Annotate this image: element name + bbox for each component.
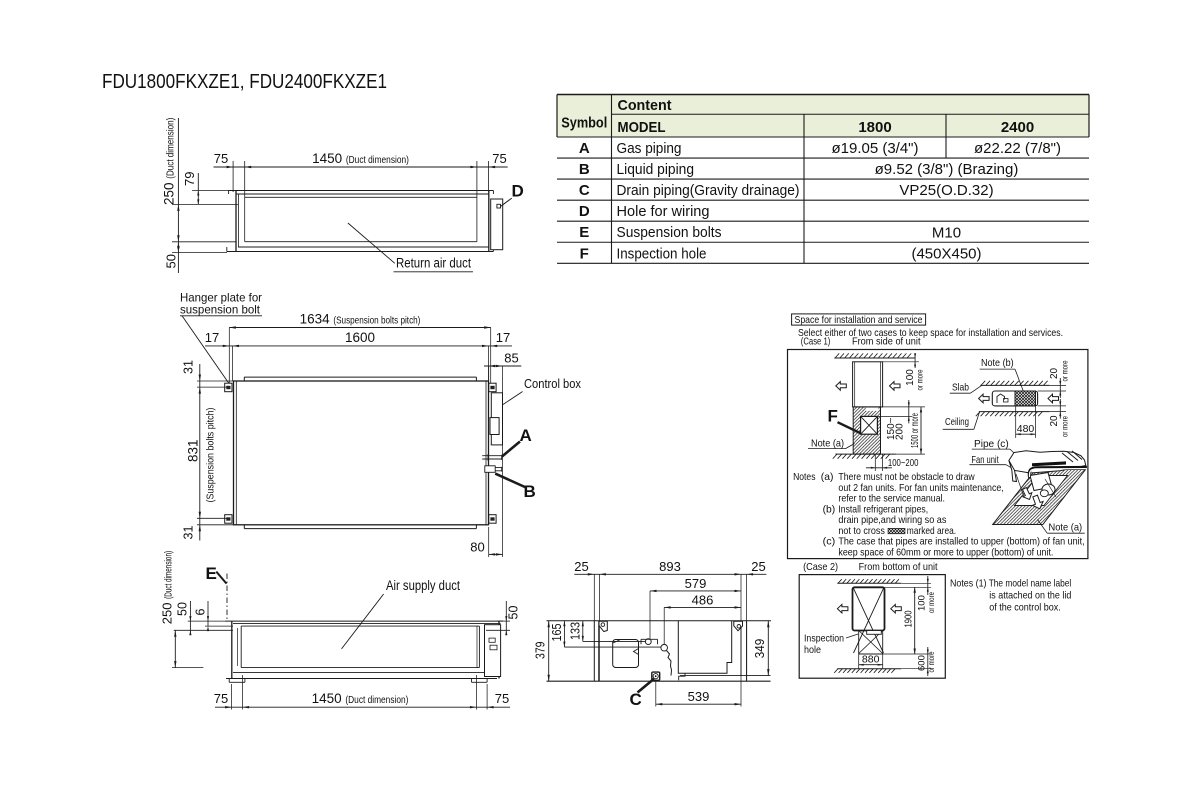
svg-text:Slab: Slab	[952, 381, 969, 393]
view4 dim 486 extension	[663, 607, 665, 644]
case1 3d white opening	[1015, 476, 1068, 506]
view1 unit right inner	[476, 197, 478, 241]
view3 tick right flange	[497, 620, 510, 622]
view3 tick flange top left	[188, 620, 227, 622]
case1 slab hatch right diagram	[980, 384, 1049, 386]
view3 unit left inner	[240, 626, 242, 668]
view4 dim 165	[563, 621, 565, 647]
view4 pipe path	[667, 651, 672, 676]
svg-text:C: C	[630, 690, 642, 709]
view3 bottom extension lines	[231, 684, 233, 710]
svg-text:2400: 2400	[1001, 119, 1034, 136]
view1 unit inner top line	[245, 196, 477, 198]
view3 unit right inner	[476, 626, 478, 668]
svg-text:The model name label: The model name label	[989, 579, 1072, 590]
view3 unit lower line	[233, 672, 501, 674]
case1 outer box	[788, 350, 1088, 559]
view2 dim 85	[484, 365, 521, 367]
view1 return air duct leader	[348, 223, 395, 263]
view3 E leader	[216, 572, 226, 584]
view2 top plate	[244, 376, 476, 378]
case1 3d fan unit body	[1009, 451, 1086, 473]
view2 control box leader	[503, 392, 523, 405]
svg-text:Space for installation and ser: Space for installation and service	[795, 314, 923, 326]
view2 suspension bolt top-right	[489, 383, 496, 392]
svg-text:MODEL: MODEL	[618, 119, 666, 136]
case1 slab hatching	[834, 357, 915, 359]
svg-text:1600: 1600	[345, 330, 375, 345]
view2 A leader	[502, 442, 520, 457]
svg-text:Inspection hole: Inspection hole	[617, 245, 707, 262]
svg-text:480: 480	[1017, 423, 1035, 435]
case1 3d unit left face	[1009, 461, 1017, 482]
view2 dim 1634 extension lines	[228, 328, 230, 385]
view3 dim 50 left line	[189, 601, 191, 634]
case2 airflow arrow right	[891, 604, 902, 613]
svg-text:keep space of 60mm or more to: keep space of 60mm or more to upper (bot…	[838, 547, 1053, 558]
view4 pipe leader line lower	[564, 646, 661, 648]
view2 dim 85 extensions	[488, 366, 490, 381]
svg-text:Suspension bolts: Suspension bolts	[617, 224, 722, 241]
view4 C leader	[638, 679, 655, 693]
svg-text:50: 50	[507, 606, 521, 620]
case1 ceiling line	[979, 411, 1050, 413]
view1 unit right edge	[488, 191, 490, 252]
case1 floor hatching	[835, 453, 896, 455]
case1 dim 1500 or more	[881, 406, 926, 408]
svg-text:A: A	[520, 426, 532, 445]
case2 dim 100 or more	[927, 576, 929, 595]
case2 dim 600 or more	[927, 647, 929, 676]
view4 top dimension 25/893/25	[574, 573, 766, 575]
view2 hanger leader	[182, 316, 229, 384]
view2 suspension bolt top-left	[225, 383, 232, 392]
view4 dim 379	[548, 621, 550, 682]
svg-text:1450 (Duct dimension): 1450 (Duct dimension)	[312, 151, 409, 166]
case2 top hatching	[837, 582, 901, 584]
svg-text:17: 17	[205, 330, 219, 345]
svg-text:80: 80	[470, 540, 484, 555]
svg-text:or more: or more	[926, 651, 936, 672]
view2 left dim ticks	[197, 380, 234, 382]
svg-text:suspension bolt: suspension bolt	[180, 303, 261, 317]
view4 drain pan step	[679, 673, 685, 680]
view1 tick duct top	[172, 203, 238, 205]
view1 left reference line	[177, 118, 179, 273]
svg-text:or more: or more	[1060, 360, 1070, 381]
svg-text:Control box: Control box	[524, 376, 581, 391]
svg-text:B: B	[524, 482, 536, 501]
view2 unit body rectangle	[234, 381, 489, 525]
case1 ceiling arrows	[979, 394, 990, 403]
svg-text:(Suspension bolts pitch): (Suspension bolts pitch)	[205, 408, 217, 503]
view3 unit left edge	[231, 621, 233, 678]
case1 3d front panel	[1030, 473, 1052, 491]
view1 extension lines top	[232, 161, 234, 192]
view4 right corner bracket	[734, 621, 743, 631]
case1 crosshatch marked block	[1015, 391, 1036, 406]
view2 control box	[491, 393, 502, 445]
svg-text:Content: Content	[618, 97, 672, 114]
svg-text:or more: or more	[915, 369, 925, 390]
view4 pipe leader line upper	[583, 640, 646, 642]
case2 bottom hatching	[837, 668, 901, 670]
view2 suspension bolt bottom-right	[489, 515, 496, 524]
table column divider symbol/content	[611, 95, 613, 264]
view3 tick 6 line	[205, 625, 233, 627]
case1 airflow arrow left	[836, 382, 847, 391]
case2 unit rect	[853, 587, 885, 630]
view2 pipe A stub	[482, 455, 502, 457]
svg-text:1900: 1900	[904, 610, 915, 627]
view4 dim 579	[650, 590, 741, 592]
view4 dim 579 extension	[649, 591, 651, 639]
svg-text:ø19.05 (3/4"): ø19.05 (3/4")	[831, 140, 918, 157]
view3 suspension bolt centerline dashed	[226, 574, 228, 621]
svg-text:1450 (Duct dimension): 1450 (Duct dimension)	[312, 691, 409, 706]
view3 right foot	[472, 681, 488, 683]
svg-text:50: 50	[164, 254, 179, 268]
view4 pipe bracket	[641, 638, 658, 640]
view4 bottom line	[547, 680, 771, 682]
view3 unit right edge	[498, 621, 500, 678]
svg-text:379: 379	[533, 642, 548, 660]
case2 right dim ticks	[885, 586, 932, 588]
svg-text:Air supply duct: Air supply duct	[386, 578, 460, 593]
svg-text:Return air duct: Return air duct	[396, 256, 471, 271]
view4 dim 133	[582, 621, 584, 642]
svg-text:75: 75	[214, 691, 228, 706]
svg-text:31: 31	[182, 360, 196, 374]
svg-text:is attached on the lid: is attached on the lid	[989, 591, 1071, 602]
view1 flange end steps	[228, 191, 230, 195]
case1 F leader	[838, 422, 861, 433]
svg-text:Pipe (c): Pipe (c)	[974, 438, 1009, 450]
view1 dim 250 arrows	[177, 204, 179, 211]
svg-text:486: 486	[692, 593, 714, 608]
case1 marked area swatch	[888, 528, 905, 534]
case2 inspection region	[858, 631, 860, 655]
svg-text:There must not be obstacle to: There must not be obstacle to draw	[838, 472, 975, 483]
view3 dim 250 line	[174, 630, 176, 667]
table row lines	[557, 136, 1089, 138]
table column divider model/values	[803, 114, 805, 263]
view1 tick bottom-most	[172, 252, 227, 254]
svg-text:539: 539	[688, 689, 710, 704]
svg-text:17: 17	[496, 330, 510, 345]
view2 bottom plate	[244, 528, 476, 530]
service panel title box	[792, 314, 926, 325]
svg-text:20: 20	[1049, 367, 1060, 379]
view3 tick duct bottom	[172, 667, 203, 669]
svg-text:893: 893	[659, 559, 681, 574]
table header background	[557, 95, 1089, 138]
case2 control box mark	[867, 631, 882, 635]
case1 hatched service block	[853, 407, 880, 454]
view4 dim 539 extensions	[655, 680, 657, 706]
svg-text:50: 50	[176, 602, 190, 616]
svg-text:ø22.22 (7/8"): ø22.22 (7/8")	[974, 140, 1061, 157]
view3 unit body top	[241, 625, 479, 627]
svg-text:Select either of two cases to: Select either of two cases to keep space…	[798, 327, 1063, 339]
svg-text:75: 75	[492, 151, 506, 166]
svg-text:1634 (Suspension bolts pitch): 1634 (Suspension bolts pitch)	[300, 312, 421, 327]
svg-text:Install refrigerant pipes,: Install refrigerant pipes,	[838, 504, 928, 515]
svg-text:VP25(O.D.32): VP25(O.D.32)	[899, 182, 993, 199]
svg-text:Fan unit: Fan unit	[971, 454, 998, 466]
case1 3d hatched ceiling band	[993, 470, 1086, 525]
case1 dim 20 or more top	[1059, 378, 1061, 398]
svg-text:E: E	[206, 564, 217, 583]
view4 right section bottom	[680, 675, 771, 677]
svg-text:Note (a): Note (a)	[811, 438, 844, 450]
view3 unit flange top line	[226, 620, 504, 622]
view4 top extension lines	[593, 574, 595, 620]
svg-text:D: D	[579, 203, 590, 220]
view4 unit top line	[547, 620, 772, 622]
view3 right pipe fittings	[489, 638, 495, 642]
svg-text:or more: or more	[926, 592, 936, 613]
view4 dim 539	[656, 703, 741, 705]
view1 D leader	[501, 198, 512, 206]
svg-text:ø9.52 (3/8") (Brazing): ø9.52 (3/8") (Brazing)	[875, 161, 1019, 178]
view1 unit second line	[236, 193, 489, 195]
case1 dim 480	[1015, 406, 1017, 438]
svg-text:of the control box.: of the control box.	[989, 603, 1060, 614]
svg-text:Notes (1): Notes (1)	[950, 579, 987, 590]
view3 unit bottom-most line	[226, 678, 497, 680]
view2 left dim line	[199, 364, 201, 541]
view4 left corner bracket	[599, 621, 607, 631]
view3 unit body bottom	[241, 667, 479, 669]
svg-text:Hole for wiring: Hole for wiring	[617, 203, 710, 220]
view1 unit flange top line	[229, 190, 494, 192]
svg-text:F: F	[828, 407, 838, 426]
view3 right pipes panel	[485, 625, 501, 677]
svg-text:marked area.: marked area.	[907, 526, 956, 537]
view2 dim 80	[489, 553, 503, 555]
case1 fan unit rect	[853, 362, 883, 407]
view4 fan scroll	[613, 640, 639, 668]
view1 right foot	[492, 247, 494, 252]
view4 dim 486	[664, 606, 741, 608]
svg-text:E: E	[579, 224, 589, 241]
case1 inspection hole box F	[861, 416, 878, 434]
svg-text:C: C	[579, 182, 590, 199]
case1 duct pipes doodle	[997, 394, 1005, 403]
view3 left foot	[229, 681, 245, 683]
view1 unit left edge	[235, 191, 237, 252]
view2 unit inner side lines	[235, 381, 237, 525]
svg-text:B: B	[579, 161, 590, 178]
view2 suspension bolt bottom-left	[225, 515, 232, 524]
svg-text:1800: 1800	[858, 119, 891, 136]
table header borders	[557, 94, 1089, 96]
svg-text:(Case 2): (Case 2)	[803, 561, 838, 573]
case2 outer box	[799, 575, 945, 679]
view1 tick body bottom	[172, 241, 236, 243]
svg-text:From side of unit: From side of unit	[852, 335, 921, 347]
view1 left foot	[226, 247, 228, 252]
table column divider 1800/2400	[945, 114, 947, 158]
case1 3d unit outlet slot	[1032, 461, 1066, 466]
svg-text:Drain piping(Gravity drainage): Drain piping(Gravity drainage)	[617, 182, 800, 199]
svg-text:drain pipe,and wiring so as: drain pipe,and wiring so as	[838, 515, 946, 526]
svg-text:25: 25	[574, 559, 588, 574]
svg-text:hole: hole	[804, 644, 821, 656]
view4 right wall	[740, 621, 742, 676]
case2 dim 880	[858, 654, 860, 669]
view2 dim 80 extension	[488, 527, 490, 557]
svg-text:Note (a): Note (a)	[1049, 522, 1083, 534]
svg-text:75: 75	[214, 151, 228, 166]
svg-text:Notes: Notes	[793, 472, 815, 483]
view1 top dimension line 75/1450/75	[214, 166, 508, 168]
svg-text:Symbol: Symbol	[561, 115, 607, 132]
view4 heat exchanger section	[678, 621, 731, 674]
case1 3d fan circles	[1042, 484, 1055, 495]
svg-text:349: 349	[752, 639, 767, 659]
svg-text:out 2 fan units. For fan units: out 2 fan units. For fan units maintenan…	[838, 483, 1003, 494]
svg-text:6: 6	[194, 609, 208, 616]
view3 tick right body top	[486, 629, 510, 631]
view3 dim 6 line	[207, 601, 209, 626]
case1 dim 100 or more	[914, 353, 916, 368]
view1 unit bottom lines	[245, 241, 477, 243]
svg-text:831: 831	[186, 439, 201, 462]
view4 drain fitting	[652, 672, 660, 680]
svg-text:Liquid piping: Liquid piping	[617, 161, 695, 178]
svg-text:1500 or more: 1500 or more	[910, 413, 921, 448]
view4 pipe A circle	[645, 639, 651, 645]
svg-text:Gas piping: Gas piping	[617, 140, 682, 157]
svg-text:133: 133	[569, 622, 583, 640]
svg-text:25: 25	[751, 559, 765, 574]
view1 unit inner left	[244, 197, 246, 241]
view2 dim 1600 extension lines	[232, 346, 234, 381]
view1 dim 79 line	[197, 173, 199, 204]
view3 tick body top	[174, 629, 233, 631]
view1 D panel	[491, 199, 503, 250]
view3 bottom dimension line	[215, 706, 510, 708]
view4 left wall	[593, 621, 595, 682]
svg-text:M10: M10	[932, 224, 961, 241]
svg-text:refer to the service manual.: refer to the service manual.	[838, 494, 945, 505]
svg-text:Note (b): Note (b)	[981, 357, 1014, 369]
view1 tick flange top	[192, 190, 230, 192]
view2 hanger label underline	[180, 315, 262, 317]
svg-text:(a): (a)	[821, 472, 834, 483]
case1 3d arrow 2	[1033, 495, 1044, 509]
case1 duct unit bar	[992, 391, 1037, 406]
svg-text:(c): (c)	[823, 537, 836, 548]
view2 right edge line to 80 dim	[502, 366, 504, 557]
svg-text:D: D	[512, 182, 524, 201]
view2 B leader	[495, 474, 526, 488]
case1 3d guide lines	[1016, 474, 1024, 497]
case1 airflow arrow right	[890, 382, 901, 391]
svg-text:FDU1800FKXZE1, FDU2400FKXZE1: FDU1800FKXZE1, FDU2400FKXZE1	[102, 70, 387, 93]
svg-text:85: 85	[504, 351, 518, 366]
view3 air supply duct leader	[342, 594, 384, 649]
view1 return air duct underline	[394, 271, 474, 273]
view4 pipe B circle	[661, 644, 668, 651]
svg-text:or more: or more	[1060, 416, 1070, 437]
svg-text:(Case 1): (Case 1)	[801, 335, 831, 347]
svg-text:75: 75	[495, 691, 509, 706]
svg-text:Ceiling: Ceiling	[945, 416, 969, 428]
svg-text:880: 880	[862, 654, 880, 666]
case1 3d arrow 1	[1022, 488, 1031, 500]
case1 right dim ticks	[1050, 384, 1066, 386]
case2 cross lines	[854, 588, 884, 653]
view1 D panel hole	[497, 204, 501, 208]
svg-text:100~200: 100~200	[888, 457, 919, 469]
svg-text:The case that pipes are instal: The case that pipes are installed to upp…	[838, 537, 1084, 548]
svg-text:F: F	[580, 245, 589, 262]
svg-text:(450X450): (450X450)	[911, 245, 981, 262]
svg-text:A: A	[579, 140, 590, 157]
svg-text:579: 579	[685, 576, 707, 591]
svg-text:20: 20	[1049, 415, 1060, 427]
case1 dim 20 or more bottom	[1059, 399, 1061, 419]
svg-text:From bottom of unit: From bottom of unit	[859, 561, 938, 573]
case2 airflow arrow left	[837, 604, 848, 613]
svg-text:Inspection: Inspection	[804, 633, 844, 645]
view3 unit second line	[233, 622, 501, 624]
svg-text:not to cross: not to cross	[838, 526, 885, 537]
case2 dim 1900	[914, 587, 916, 654]
view2 pipe B stub	[485, 466, 495, 473]
view2 dim 1634	[229, 327, 490, 329]
view4 dim 349	[767, 621, 769, 676]
svg-text:165: 165	[550, 623, 564, 641]
case1 block top notch	[866, 408, 879, 411]
svg-text:79: 79	[182, 172, 197, 186]
view2 dim 1600	[205, 345, 512, 347]
view3 dim 50 right line	[505, 601, 507, 634]
view2 control box terminal	[490, 418, 499, 435]
svg-text:200: 200	[895, 423, 906, 440]
svg-text:31: 31	[182, 526, 196, 540]
case1 dim 100-200	[874, 454, 876, 471]
case1 dim 150-200	[877, 415, 912, 417]
case1 3d hatch stripes top right	[1062, 453, 1073, 462]
case1 3d pipe	[1029, 467, 1087, 477]
svg-text:(b): (b)	[823, 504, 836, 515]
